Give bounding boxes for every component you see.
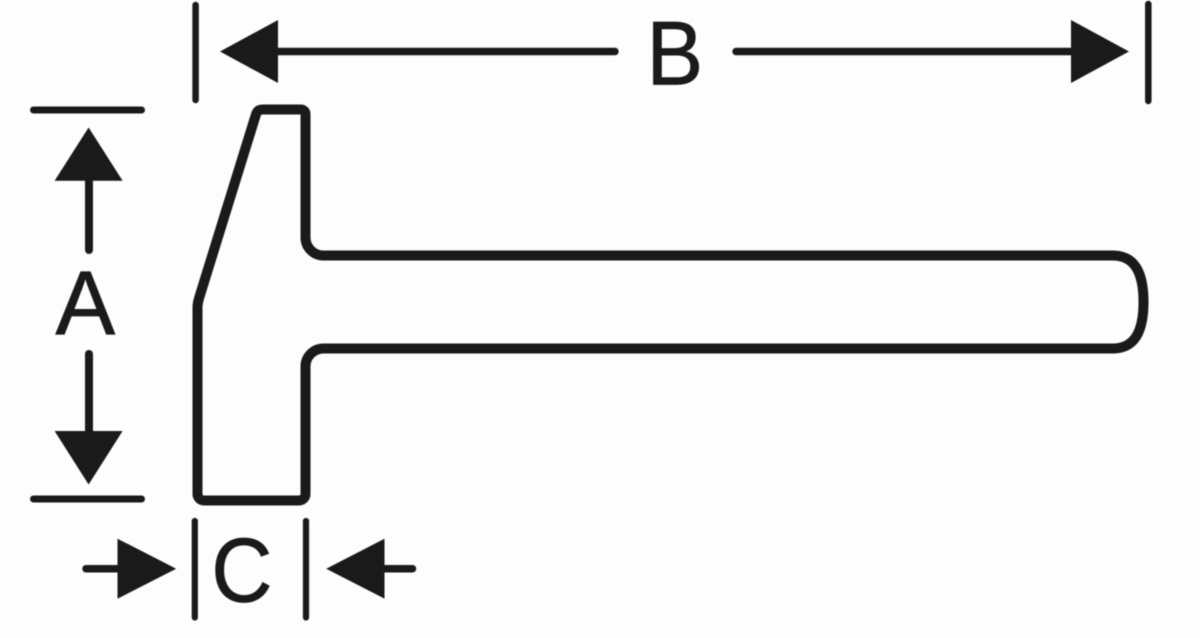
- A up arrow shaft: [85, 179, 93, 250]
- B left arrow shaft: [276, 48, 615, 55]
- C right arrowhead: [326, 539, 384, 599]
- C right extension tick: [303, 521, 309, 618]
- label C: [211, 519, 272, 622]
- C left extension tick: [192, 521, 198, 618]
- C left arrow shaft: [86, 565, 118, 573]
- C left arrowhead: [118, 539, 177, 599]
- B left extension tick: [192, 5, 199, 100]
- B left arrowhead: [220, 20, 278, 83]
- A up arrowhead: [55, 128, 123, 181]
- svg-text:B: B: [646, 2, 703, 104]
- A bottom extension tick: [34, 496, 142, 503]
- A down arrowhead: [55, 431, 123, 485]
- label B: [646, 2, 703, 104]
- B right arrow shaft: [736, 48, 1073, 55]
- hammer outline: [198, 110, 1144, 501]
- C right arrow shaft: [383, 565, 413, 573]
- A top extension tick: [34, 107, 142, 114]
- label A: [55, 253, 115, 355]
- A down arrow shaft: [85, 354, 93, 432]
- B right arrowhead: [1071, 20, 1129, 83]
- B right extension tick: [1145, 4, 1152, 101]
- svg-text:C: C: [211, 519, 272, 622]
- svg-text:A: A: [55, 253, 115, 355]
